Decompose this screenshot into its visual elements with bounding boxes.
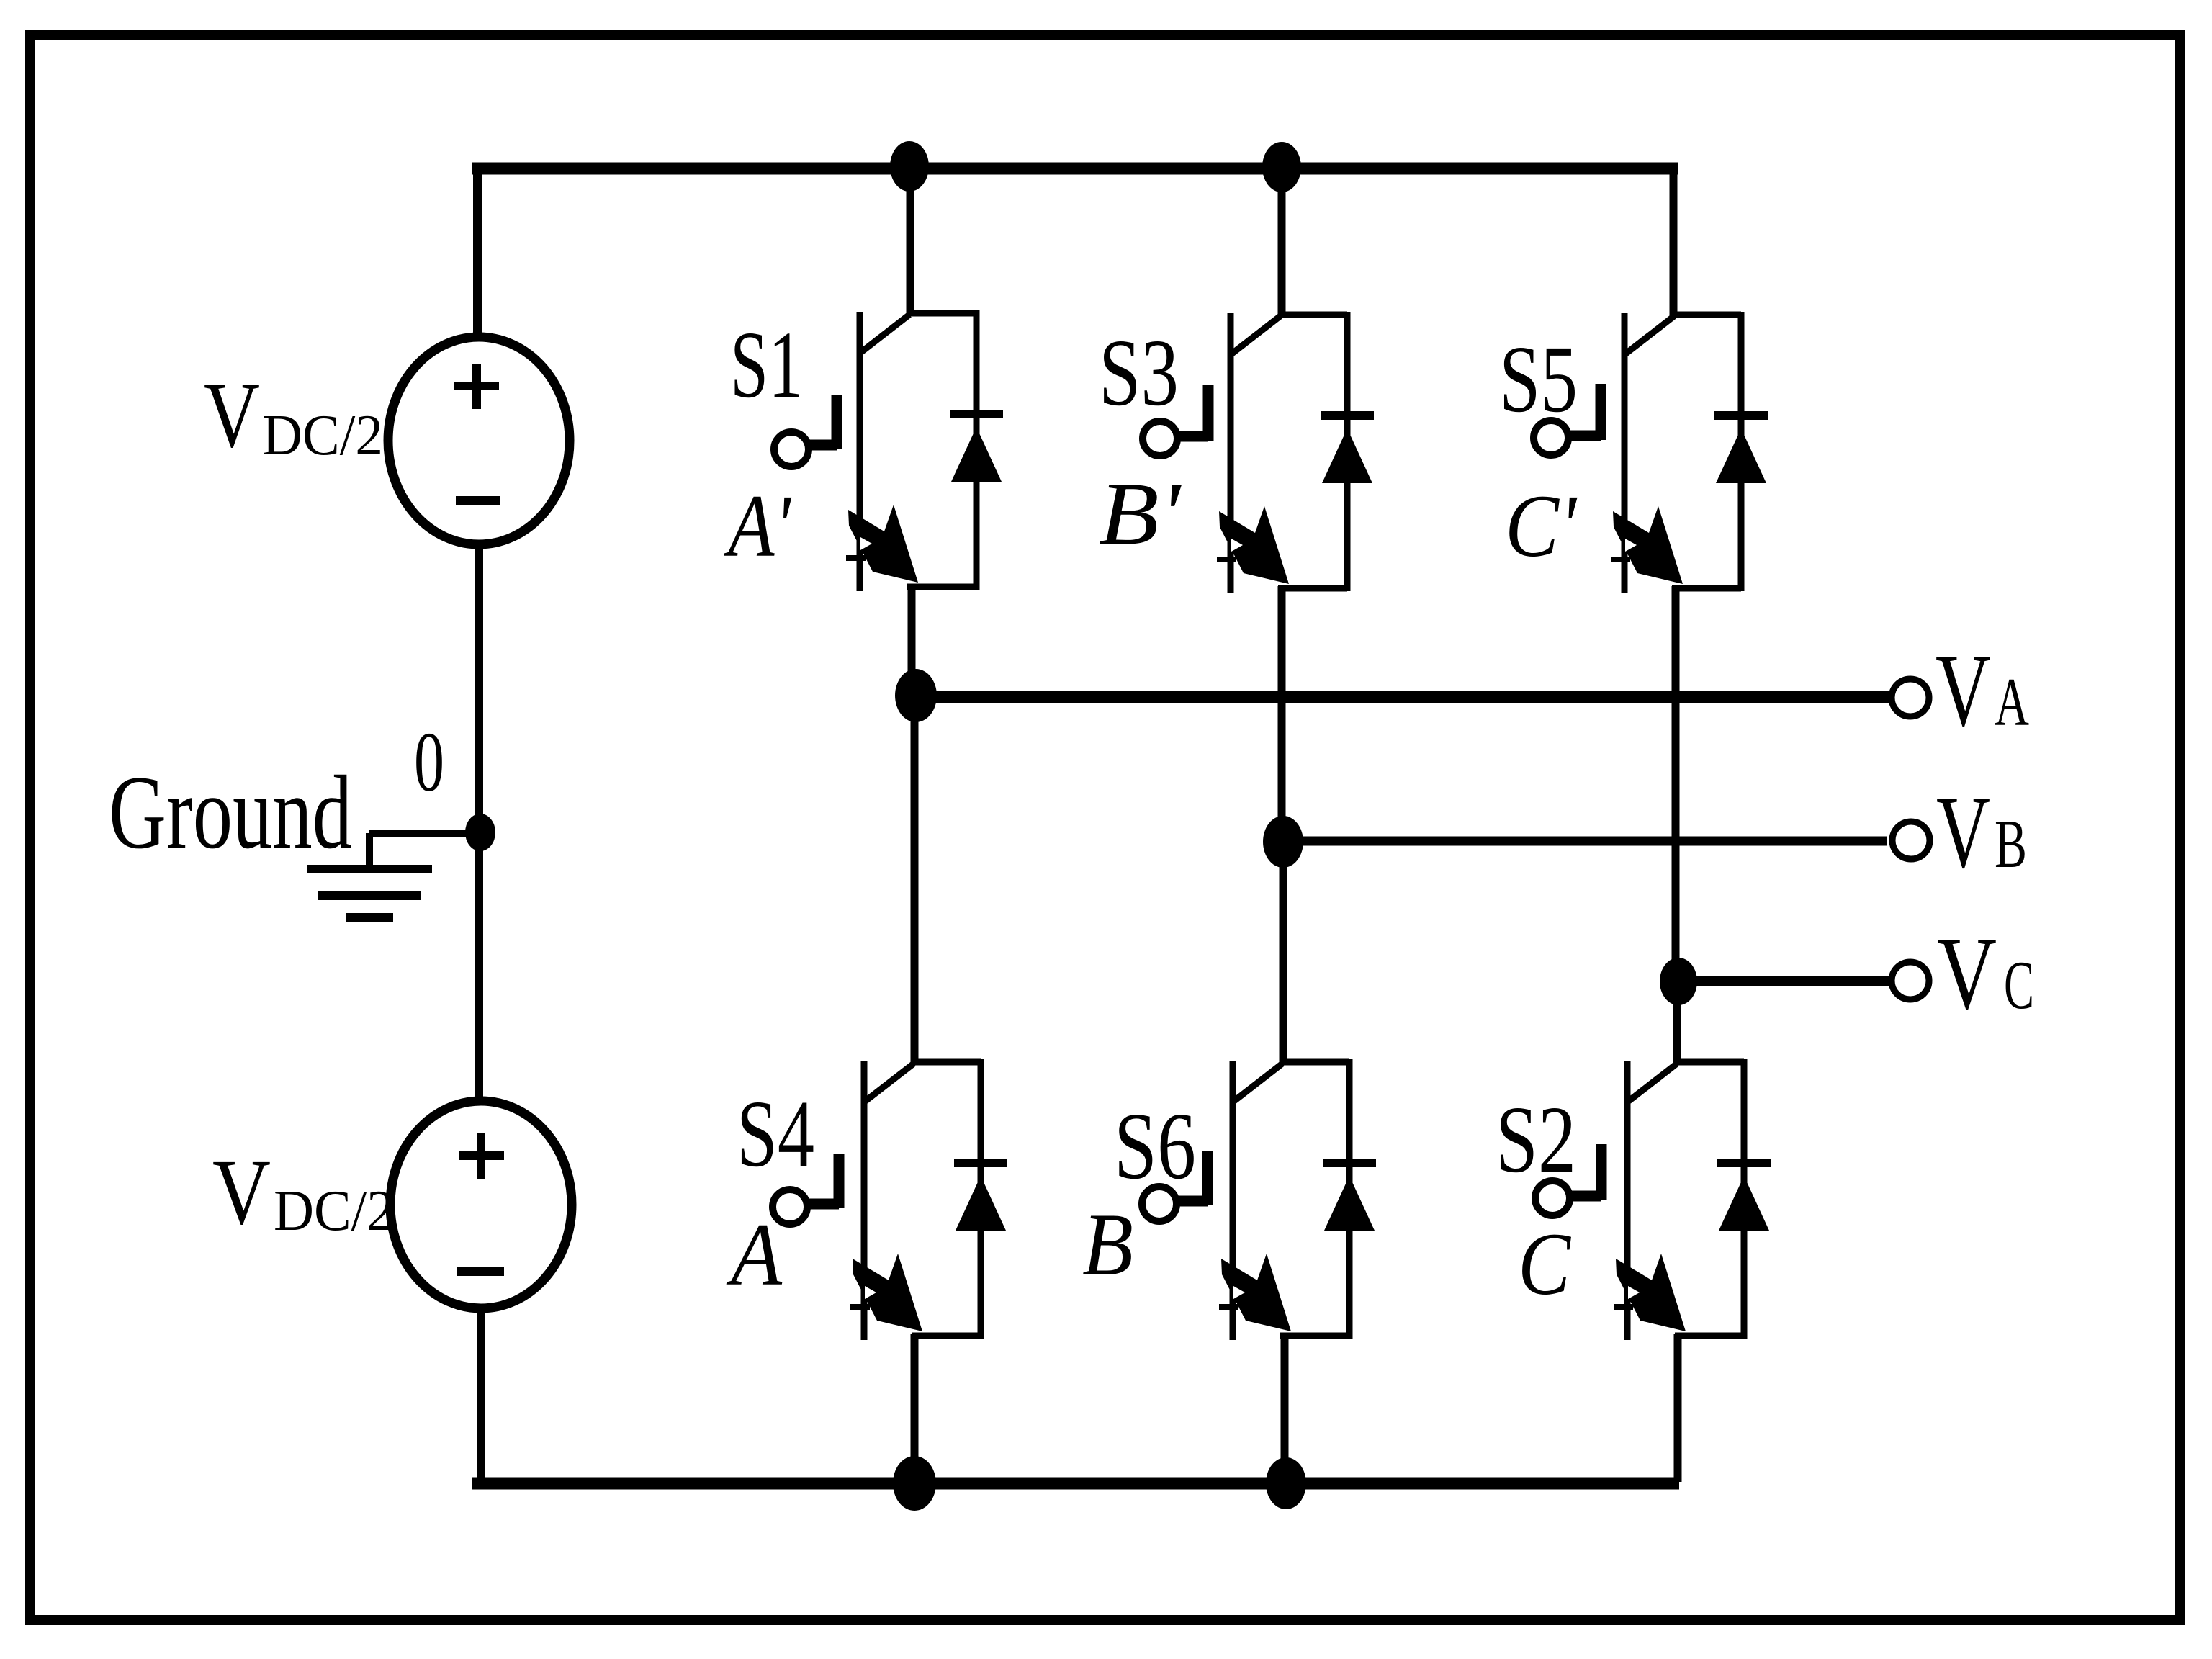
svg-text:Ground: Ground: [109, 754, 352, 871]
svg-text:DC/2: DC/2: [262, 404, 383, 467]
svg-text:V: V: [1937, 917, 1997, 1031]
svg-text:C: C: [2004, 947, 2034, 1023]
svg-text:A': A': [724, 477, 792, 575]
svg-text:S2: S2: [1496, 1086, 1576, 1192]
svg-text:S6: S6: [1114, 1092, 1196, 1199]
svg-text:B: B: [1082, 1195, 1133, 1294]
svg-text:S1: S1: [730, 311, 803, 418]
svg-text:V: V: [1935, 634, 1991, 748]
svg-text:A: A: [1995, 664, 2029, 740]
svg-text:V: V: [204, 364, 260, 467]
svg-text:C': C': [1505, 477, 1578, 575]
svg-text:0: 0: [414, 714, 444, 809]
svg-text:S4: S4: [737, 1080, 814, 1187]
svg-text:S5: S5: [1499, 325, 1578, 432]
svg-text:B: B: [1995, 806, 2027, 882]
svg-text:V: V: [212, 1141, 271, 1244]
svg-text:A: A: [726, 1205, 783, 1304]
svg-text:V: V: [1936, 775, 1990, 890]
svg-text:C: C: [1518, 1215, 1571, 1313]
svg-text:B': B': [1099, 464, 1182, 563]
svg-text:S3: S3: [1099, 319, 1179, 426]
svg-text:DC/2: DC/2: [274, 1179, 395, 1243]
